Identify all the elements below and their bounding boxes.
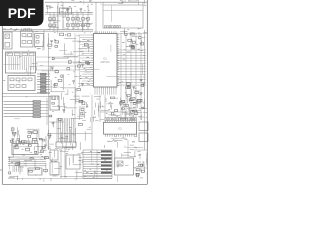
svg-text:M37210: M37210 bbox=[101, 61, 110, 64]
svg-text:IC2: IC2 bbox=[118, 128, 122, 131]
svg-text:PDF: PDF bbox=[8, 5, 36, 21]
